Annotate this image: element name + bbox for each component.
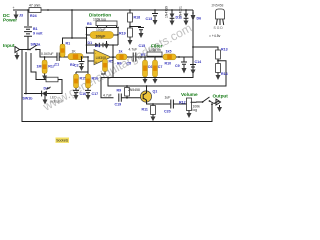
svg-text:2N5458: 2N5458 <box>128 88 140 92</box>
svg-text:C2: C2 <box>74 64 79 68</box>
ground (output jack) <box>217 105 222 112</box>
switch SW1c LED <box>23 93 46 101</box>
svg-text:R15: R15 <box>80 77 87 81</box>
ground (C17) <box>86 93 91 100</box>
capacitor C19 <box>103 94 141 107</box>
wire LED feed vertical <box>25 52 27 94</box>
svg-text:C14: C14 <box>195 60 202 64</box>
capacitor C7 <box>153 57 163 77</box>
wire rail right drop x193 <box>192 10 194 64</box>
svg-text:Sockets: Sockets <box>56 139 68 143</box>
capacitor C15 <box>130 27 145 49</box>
ground (D11) <box>170 21 175 26</box>
svg-text:47 ohm: 47 ohm <box>29 3 40 7</box>
svg-text:+: + <box>13 6 15 10</box>
svg-text:R10: R10 <box>165 62 172 66</box>
capacitor C4 <box>87 28 119 38</box>
svg-text:C9: C9 <box>175 64 180 68</box>
svg-text:log: log <box>193 108 198 112</box>
ground (C6) <box>143 77 148 84</box>
capacitor C9 <box>175 57 187 68</box>
ground (C2) <box>79 64 84 71</box>
capacitor C1 <box>41 52 68 67</box>
wire divider branch <box>193 47 218 50</box>
svg-text:R6: R6 <box>117 62 122 66</box>
svg-text:C19: C19 <box>115 103 122 107</box>
ground (C7) <box>153 77 158 84</box>
resistor R10 <box>163 50 193 66</box>
wire bias feed <box>107 61 226 86</box>
svg-text:1N4739: 1N4739 <box>165 6 169 18</box>
resistor R18 <box>128 10 140 40</box>
svg-text:R14: R14 <box>221 72 228 76</box>
svg-text:IC1: IC1 <box>95 44 101 48</box>
diode D7 <box>179 6 189 20</box>
ground (C13) <box>153 20 158 25</box>
svg-text:2N5458: 2N5458 <box>212 4 224 8</box>
svg-text:R24: R24 <box>30 14 37 18</box>
node filter line <box>140 56 163 58</box>
ground (op-amp comp pin) <box>104 41 109 49</box>
svg-text:R12: R12 <box>179 101 186 105</box>
transistor Q1 2N5458 <box>128 85 157 102</box>
svg-text:Power: Power <box>3 18 17 23</box>
node +4.5v <box>209 34 221 38</box>
ground (R11) <box>151 115 156 122</box>
wire diode row to output <box>112 44 114 57</box>
output jack J2 <box>213 94 229 106</box>
resistor R6 <box>116 50 132 66</box>
ground (volume pot) <box>187 111 192 119</box>
svg-text:1K: 1K <box>72 50 77 54</box>
svg-text:C17: C17 <box>92 92 99 96</box>
resistor R16 <box>86 74 99 88</box>
label sockets <box>56 138 70 143</box>
svg-text:1k5: 1k5 <box>166 50 172 54</box>
svg-text:9 volt: 9 volt <box>33 32 43 36</box>
diode D2 <box>99 43 118 47</box>
svg-text:-: - <box>95 51 96 55</box>
wire feedback right x118 <box>117 28 119 46</box>
svg-text:Output: Output <box>213 94 229 99</box>
wire +9V rail <box>13 9 193 11</box>
ground (LED) <box>43 100 48 105</box>
svg-text:1N4001: 1N4001 <box>179 6 183 18</box>
diode D6 polarity <box>191 12 202 21</box>
node op-amp output <box>112 56 114 77</box>
potentiometer R3 distortion <box>87 13 117 28</box>
svg-text:1k: 1k <box>119 50 123 54</box>
battery B1 <box>24 10 43 50</box>
resistor R17 <box>37 56 55 73</box>
svg-text:C20: C20 <box>164 110 171 114</box>
switch SW1a <box>29 43 57 58</box>
ground (DC power) <box>14 11 19 20</box>
wire distortion loop top <box>86 27 119 29</box>
resistor R11 <box>142 104 156 115</box>
svg-text:R16: R16 <box>92 77 99 81</box>
wire rail drop x72 <box>71 10 73 39</box>
svg-text:C15: C15 <box>139 44 146 48</box>
svg-text:Q1: Q1 <box>153 90 158 94</box>
DC power + terminal <box>3 6 23 23</box>
svg-text:R18: R18 <box>134 16 141 20</box>
svg-text:R17: R17 <box>48 65 55 69</box>
wire bypass bottom <box>22 50 212 122</box>
capacitor C6 <box>143 57 153 77</box>
transistor 2N5458 package drawing <box>212 4 225 31</box>
svg-text:R13: R13 <box>221 48 228 52</box>
wire filter to lower signal <box>101 57 193 98</box>
resistor R19 <box>119 28 132 37</box>
svg-text:+: + <box>95 60 97 64</box>
ground (C16) <box>74 93 79 100</box>
svg-text:R11: R11 <box>142 108 148 112</box>
resistor R24 <box>29 3 41 18</box>
svg-text:100pF: 100pF <box>96 34 106 38</box>
capacitor C13 <box>146 10 159 21</box>
capacitor C17 <box>85 88 98 96</box>
svg-text:R1: R1 <box>66 42 71 46</box>
zener D11 <box>165 6 182 20</box>
svg-text:R3: R3 <box>87 22 92 26</box>
svg-text:SW1b: SW1b <box>23 97 34 101</box>
resistor R1 <box>60 42 70 58</box>
svg-text:C7: C7 <box>158 65 163 69</box>
resistor R9 <box>117 85 130 99</box>
svg-text:Volume: Volume <box>181 92 198 97</box>
resistor R13 <box>216 48 228 64</box>
svg-text:1uF: 1uF <box>165 96 171 100</box>
svg-text:4.7uF: 4.7uF <box>103 94 112 98</box>
ground (R14) <box>216 73 221 81</box>
svg-text:R9: R9 <box>117 89 122 93</box>
svg-text:C1: C1 <box>55 63 60 67</box>
svg-text:100pF: 100pF <box>96 28 106 32</box>
diode D1 <box>87 41 100 47</box>
svg-text:C6: C6 <box>148 65 153 69</box>
capacitor C20 <box>164 96 187 114</box>
svg-text:4.7uF: 4.7uF <box>129 48 138 52</box>
node rail junctions <box>27 9 187 11</box>
svg-text:S G D: S G D <box>214 26 224 30</box>
svg-text:R19: R19 <box>119 32 126 36</box>
wire R1 top to feedback <box>63 38 87 44</box>
wire gain legs tee <box>76 56 89 74</box>
svg-text:0.047uF: 0.047uF <box>41 52 53 56</box>
resistor R26 <box>46 77 62 93</box>
svg-text:R5: R5 <box>109 60 114 64</box>
wire feedback left x86.5 <box>86 28 94 54</box>
capacitor C16 <box>73 88 86 96</box>
ground (R17) <box>42 74 47 81</box>
svg-text:C5: C5 <box>127 62 132 66</box>
label LED indicator <box>50 96 64 104</box>
watermark www.generalguitargadgets.com <box>40 21 194 114</box>
ground (R19) <box>128 37 133 45</box>
ground (input jack) <box>15 53 20 61</box>
svg-text:J3: J3 <box>19 14 23 18</box>
input jack J1 <box>3 43 30 53</box>
svg-text:= +4.5v: = +4.5v <box>209 34 221 38</box>
resistor R2 <box>68 50 94 68</box>
svg-text:Input: Input <box>3 43 15 48</box>
svg-text:D6: D6 <box>197 17 202 21</box>
op-amp IC1 LM308 <box>94 44 116 65</box>
ground (D7) <box>184 21 189 26</box>
svg-text:indicator: indicator <box>50 99 64 103</box>
ground (C9) <box>182 65 187 74</box>
svg-text:R7: R7 <box>141 53 146 57</box>
svg-text:C16: C16 <box>80 92 87 96</box>
resistor R5 <box>101 59 113 74</box>
svg-text:C13: C13 <box>146 17 153 21</box>
resistor R15 <box>74 74 87 88</box>
capacitor C14 <box>190 60 201 67</box>
wire Q1 source line <box>147 102 171 105</box>
resistor R14 <box>216 64 228 77</box>
LED D4 <box>24 87 51 97</box>
svg-text:D1: D1 <box>88 41 93 45</box>
capacitor C5 <box>127 48 144 66</box>
node filter out <box>178 56 180 58</box>
potentiometer R7 filter <box>141 43 163 57</box>
wire switch to LED loop <box>31 53 46 80</box>
svg-text:1M: 1M <box>37 65 42 69</box>
switch SW1b output <box>196 97 214 105</box>
capacitor C2 <box>74 57 85 68</box>
svg-text:B1: B1 <box>33 27 38 31</box>
ground (C14) <box>191 67 196 74</box>
potentiometer R12 volume <box>179 92 200 112</box>
